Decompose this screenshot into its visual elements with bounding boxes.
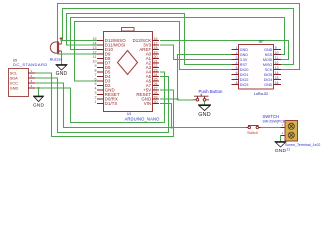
wire VCC rail to switch xyxy=(35,83,247,128)
ARDUINO_NANO left pin names xyxy=(105,38,126,106)
svg-text:GND: GND xyxy=(264,83,273,87)
ground screw terminal xyxy=(275,142,287,148)
svg-text:GND: GND xyxy=(198,112,211,118)
LoRa left pin names xyxy=(240,48,249,87)
svg-text:28: 28 xyxy=(154,91,158,95)
svg-text:4: 4 xyxy=(236,61,238,65)
DC_STANDARD pin names xyxy=(10,71,19,90)
wire D13/SCK to LoRa MOSI xyxy=(160,41,289,60)
svg-text:7: 7 xyxy=(95,73,97,77)
LoRa right pin names xyxy=(263,48,273,87)
svg-text:11: 11 xyxy=(93,55,97,59)
ARDUINO_NANO right pin names xyxy=(133,38,152,106)
screw terminal screws xyxy=(288,123,294,138)
svg-text:9: 9 xyxy=(95,64,97,68)
svg-text:GND: GND xyxy=(275,148,287,154)
LoRa right pin numbers xyxy=(275,46,279,85)
svg-text:30: 30 xyxy=(154,100,158,104)
svg-text:GND: GND xyxy=(240,48,249,52)
node junction GND spine xyxy=(176,98,178,100)
svg-text:17: 17 xyxy=(154,41,158,45)
svg-text:Push Button: Push Button xyxy=(199,89,223,94)
svg-text:GND: GND xyxy=(33,103,45,109)
LoRa pin stubs xyxy=(232,50,282,85)
wire D10 to LoRa NSS (top bus line 4) xyxy=(71,18,285,55)
LoRa RF module box xyxy=(239,45,274,90)
screw terminal pins 1-2 xyxy=(281,128,286,136)
node junction DC GND xyxy=(37,87,39,89)
svg-text:10: 10 xyxy=(275,51,279,55)
svg-text:3: 3 xyxy=(31,79,33,83)
svg-text:10: 10 xyxy=(93,59,97,63)
svg-text:18: 18 xyxy=(154,46,158,50)
svg-text:6: 6 xyxy=(236,71,238,75)
wire D3 to LoRa DIO0 (top bus line 5) xyxy=(75,22,232,82)
svg-text:11: 11 xyxy=(275,56,279,60)
svg-text:NSS: NSS xyxy=(265,53,273,57)
svg-text:8: 8 xyxy=(95,68,97,72)
LoRa left pin numbers xyxy=(236,46,238,85)
svg-text:SDA: SDA xyxy=(10,76,18,80)
wire terminal pin2 to GND xyxy=(280,136,282,142)
switch SW1 symbol xyxy=(247,125,261,128)
svg-text:1: 1 xyxy=(236,46,238,50)
node junction VIN/VCC rail xyxy=(170,126,172,128)
ARDUINO_NANO right pin numbers xyxy=(154,37,158,104)
svg-text:GND: GND xyxy=(10,86,19,90)
svg-text:19: 19 xyxy=(154,50,158,54)
svg-text:23: 23 xyxy=(154,68,158,72)
wire GND net LoRa to button xyxy=(178,55,232,101)
svg-text:SCK: SCK xyxy=(265,68,273,72)
svg-text:ARDUINO_NANO: ARDUINO_NANO xyxy=(125,117,161,122)
svg-text:DIO4: DIO4 xyxy=(264,78,273,82)
ARDUINO_NANO left pin numbers xyxy=(93,37,97,104)
wire SDA rail to A5 xyxy=(35,77,169,133)
svg-text:U1: U1 xyxy=(127,112,131,116)
ARDUINO_NANO U1 body xyxy=(104,32,153,112)
DC_STANDARD pin numbers xyxy=(31,69,33,88)
svg-text:VIN: VIN xyxy=(144,101,151,106)
svg-text:GND: GND xyxy=(56,71,68,77)
svg-text:13: 13 xyxy=(275,66,279,70)
ground DC_STANDARD xyxy=(33,96,44,102)
svg-text:DIO0: DIO0 xyxy=(240,68,249,72)
svg-text:3: 3 xyxy=(236,56,238,60)
svg-text:9: 9 xyxy=(275,46,277,50)
svg-text:15: 15 xyxy=(93,37,97,41)
svg-text:14: 14 xyxy=(275,71,279,75)
svg-text:12: 12 xyxy=(93,50,97,54)
svg-text:2: 2 xyxy=(236,51,238,55)
svg-text:MOSI: MOSI xyxy=(263,58,272,62)
ARDUINO_NANO pin stubs xyxy=(97,41,159,104)
svg-text:1: 1 xyxy=(31,69,33,73)
svg-text:26: 26 xyxy=(154,82,158,86)
svg-text:DC_STANDARD: DC_STANDARD xyxy=(13,62,48,67)
DC_STANDARD U5 box xyxy=(9,69,29,97)
svg-text:21: 21 xyxy=(154,59,158,63)
ARDUINO_NANO usb notch xyxy=(122,28,135,32)
svg-text:D1/TX: D1/TX xyxy=(105,101,118,106)
svg-text:20: 20 xyxy=(154,55,158,59)
wire VIN riser xyxy=(160,104,172,128)
svg-text:4: 4 xyxy=(95,86,97,90)
svg-text:5: 5 xyxy=(95,82,97,86)
push button S1 symbol xyxy=(193,94,209,102)
svg-text:1: 1 xyxy=(95,100,97,104)
svg-text:29: 29 xyxy=(154,95,158,99)
wire D9 to LoRa SCK (top bus line 1) xyxy=(58,4,300,70)
wire D12 to LoRa MISO (top bus line 2) xyxy=(63,9,294,65)
wire DC GND rail to A4 xyxy=(35,72,165,123)
svg-text:5: 5 xyxy=(236,66,238,70)
svg-text:DIO5: DIO5 xyxy=(264,73,273,77)
ground buzzer xyxy=(56,65,68,71)
svg-text:GND: GND xyxy=(240,53,249,57)
svg-text:16: 16 xyxy=(275,81,279,85)
svg-text:LoRa-02: LoRa-02 xyxy=(254,92,269,96)
wire 3V3 to LoRa 3.3V xyxy=(160,45,232,60)
ARDUINO_NANO diamond mark xyxy=(118,51,138,75)
svg-text:SCL: SCL xyxy=(10,71,17,75)
buzzer BUZ1 symbol xyxy=(50,37,62,54)
ground push button xyxy=(198,105,211,111)
svg-text:15: 15 xyxy=(275,76,279,80)
svg-text:25: 25 xyxy=(154,77,158,81)
wire SCL rail to +5V xyxy=(35,73,174,137)
svg-text:VCC: VCC xyxy=(10,81,18,85)
svg-text:27: 27 xyxy=(154,86,158,90)
wire D11 to LoRa RST (top bus line 3) xyxy=(67,14,232,65)
svg-text:Buzzer: Buzzer xyxy=(50,57,63,62)
svg-text:24: 24 xyxy=(154,73,158,77)
svg-text:13: 13 xyxy=(93,46,97,50)
svg-text:GND: GND xyxy=(264,48,273,52)
wire arduino GND pin xyxy=(160,98,178,100)
svg-text:DIO1: DIO1 xyxy=(240,73,249,77)
svg-text:RST: RST xyxy=(240,63,248,67)
wire buzzer minus xyxy=(61,51,63,65)
svg-text:Switch: Switch xyxy=(247,131,258,135)
svg-text:SWITCH: SWITCH xyxy=(263,114,280,119)
svg-text:12: 12 xyxy=(275,61,279,65)
svg-text:14: 14 xyxy=(93,41,97,45)
wire DC GND stub xyxy=(38,88,40,96)
svg-text:DIO2: DIO2 xyxy=(240,78,249,82)
wire buzzer plus xyxy=(61,41,63,45)
svg-text:DIO3: DIO3 xyxy=(240,83,249,87)
DC_STANDARD pins 1-4 xyxy=(28,73,35,88)
svg-text:22: 22 xyxy=(154,64,158,68)
svg-text:8: 8 xyxy=(236,81,238,85)
svg-text:RF: RF xyxy=(259,40,265,44)
svg-text:J1: J1 xyxy=(287,147,291,151)
svg-text:4: 4 xyxy=(31,84,33,88)
svg-text:Screw_Terminal_1x02: Screw_Terminal_1x02 xyxy=(285,143,320,147)
node junction buzzer/D12 wire xyxy=(60,39,62,41)
screw terminal J1 box xyxy=(285,121,298,142)
svg-text:3.3V: 3.3V xyxy=(240,58,248,62)
svg-text:MISO: MISO xyxy=(263,63,273,67)
wire button to GND xyxy=(204,101,206,105)
svg-text:2: 2 xyxy=(95,95,97,99)
svg-text:7: 7 xyxy=(236,76,238,80)
svg-text:6: 6 xyxy=(95,77,97,81)
svg-text:3: 3 xyxy=(95,91,97,95)
svg-text:16: 16 xyxy=(154,37,158,41)
svg-text:2: 2 xyxy=(31,74,33,78)
wire switch to terminal xyxy=(261,127,281,129)
